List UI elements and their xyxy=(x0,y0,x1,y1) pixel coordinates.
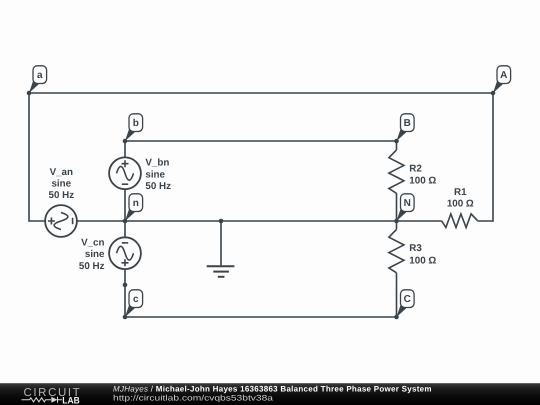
svg-text:n: n xyxy=(133,198,139,209)
node A label xyxy=(493,66,511,93)
node C label xyxy=(397,290,415,317)
svg-text:C: C xyxy=(404,294,411,305)
svg-text:http://circuitlab.com/cvqbs53b: http://circuitlab.com/cvqbs53btv38a xyxy=(113,394,274,403)
svg-text:100 Ω: 100 Ω xyxy=(447,199,474,210)
svg-text:B: B xyxy=(404,118,411,129)
wire B to R2 body xyxy=(396,141,398,150)
wire N to R1 left lead xyxy=(397,220,442,222)
svg-text:A: A xyxy=(500,70,507,81)
svg-text:50 Hz: 50 Hz xyxy=(145,181,171,192)
junction a xyxy=(27,91,32,96)
wire ground stub xyxy=(220,221,222,265)
svg-text:a: a xyxy=(37,70,43,81)
node B label xyxy=(397,114,415,141)
junction ground tap xyxy=(219,219,224,224)
node b label xyxy=(125,114,143,141)
junction B xyxy=(394,139,399,144)
wire N to R3 body xyxy=(396,221,398,229)
junction V_cn bottom terminal xyxy=(123,283,128,288)
junction A xyxy=(491,91,496,96)
wire V_bn bottom terminal to n xyxy=(124,189,126,221)
ground xyxy=(207,266,235,277)
svg-text:MJHayes / Michael-John Hayes 1: MJHayes / Michael-John Hayes 16363863 Ba… xyxy=(113,385,432,394)
resistor R1 xyxy=(442,214,478,228)
wire right vertical A to R1 xyxy=(478,93,493,221)
junction C xyxy=(394,315,399,320)
svg-text:50 Hz: 50 Hz xyxy=(79,261,105,272)
svg-text:V_cn: V_cn xyxy=(81,237,104,248)
CircuitLab logo resistor squiggle xyxy=(22,398,52,402)
svg-text:c: c xyxy=(133,294,139,305)
svg-text:N: N xyxy=(404,198,411,209)
svg-text:sine: sine xyxy=(85,249,105,260)
junction n xyxy=(123,219,128,224)
svg-text:sine: sine xyxy=(51,178,71,189)
node a label xyxy=(29,66,47,93)
svg-text:V_bn: V_bn xyxy=(145,157,169,168)
wire bottom c to C xyxy=(125,316,397,318)
node N label xyxy=(397,194,415,221)
junction N xyxy=(394,219,399,224)
resistor R2 xyxy=(389,150,404,193)
voltage source V_cn xyxy=(109,237,141,269)
svg-text:R1: R1 xyxy=(454,187,467,198)
CircuitLab logo diode xyxy=(51,397,57,403)
svg-text:100 Ω: 100 Ω xyxy=(409,255,436,266)
voltage source V_an xyxy=(45,205,77,237)
junction b xyxy=(123,139,128,144)
svg-text:100 Ω: 100 Ω xyxy=(409,175,436,186)
svg-text:LAB: LAB xyxy=(62,396,80,405)
wire R3 body to C xyxy=(396,273,398,317)
wire n to V_cn top terminal xyxy=(124,221,126,237)
wire b to V_bn top terminal xyxy=(124,141,126,157)
wire left vertical a to V_an xyxy=(29,93,45,221)
svg-text:sine: sine xyxy=(145,169,165,180)
wire V_an to N (through n and ground tap) xyxy=(77,220,397,222)
node c label xyxy=(125,290,143,317)
wire V_cn bottom terminal to c corner xyxy=(124,269,126,317)
junction c xyxy=(123,315,128,320)
svg-text:R2: R2 xyxy=(409,163,422,174)
voltage source V_bn xyxy=(109,157,141,189)
node n label xyxy=(125,194,143,221)
svg-text:V_an: V_an xyxy=(50,167,73,178)
svg-text:50 Hz: 50 Hz xyxy=(49,190,75,201)
wire top a to A xyxy=(29,92,493,94)
resistor R3 xyxy=(389,229,404,272)
wire R2 body to N xyxy=(396,193,398,221)
svg-text:R3: R3 xyxy=(409,243,422,254)
wire b to B xyxy=(125,140,397,142)
svg-text:b: b xyxy=(133,118,139,129)
